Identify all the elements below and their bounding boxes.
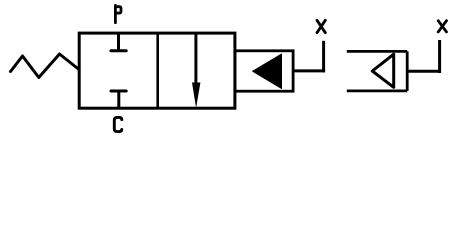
pilot triangle filled <box>253 54 282 89</box>
node C blocked port stub <box>117 91 120 108</box>
flow arrow shaft <box>194 33 197 88</box>
wire pilot line vertical <box>322 41 325 73</box>
label C <box>114 117 122 131</box>
wire pilot line vertical right <box>438 40 441 73</box>
wire pilot line horizontal right <box>407 70 439 73</box>
internal pilot box bottom line <box>347 90 407 93</box>
pilot box (solenoid/pilot actuator) <box>235 51 293 91</box>
internal pilot box right edge <box>406 51 409 91</box>
wire pilot line horizontal <box>293 69 325 72</box>
wire divider between positions <box>156 33 159 108</box>
label X right <box>438 21 446 32</box>
label P <box>115 5 121 22</box>
flow arrow head <box>192 83 200 109</box>
valve body <box>79 33 235 108</box>
node P blocked port crossbar <box>111 49 126 52</box>
pilot triangle open <box>372 54 393 87</box>
node P blocked port stub <box>117 33 120 51</box>
label X left <box>317 20 325 32</box>
spring <box>11 54 80 78</box>
internal pilot box top line <box>347 50 407 53</box>
node C blocked port crossbar <box>111 90 126 93</box>
